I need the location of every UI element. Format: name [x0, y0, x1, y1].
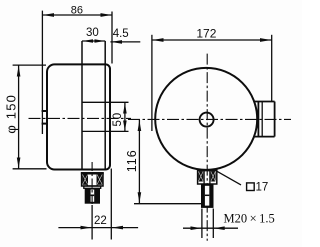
nut hatch left (front): [198, 171, 203, 181]
dimension line 50: [124, 103, 126, 132]
extension line M20 left: [201, 209, 203, 239]
label square 17: [247, 182, 269, 194]
extension line M20 right: [212, 209, 214, 239]
svg-text:17: 17: [256, 182, 269, 194]
extension line 172 left: [151, 35, 153, 131]
arrow 86 right: [101, 13, 112, 17]
arrow 116 top: [138, 120, 142, 131]
svg-text:86: 86: [71, 5, 83, 17]
nut facet line right: [96, 173, 98, 186]
arrow phi150 bottom: [17, 158, 21, 169]
dimension 4.5 leader line: [110, 41, 140, 43]
arrow 172 right: [260, 38, 271, 42]
case internal horizontal upper / ext line for 50: [82, 101, 129, 103]
dimension line 86: [42, 14, 112, 16]
svg-text:22: 22: [94, 215, 107, 227]
svg-text:4.5: 4.5: [113, 28, 129, 40]
arrow 172 left: [152, 38, 163, 42]
arrow 22 left (outside): [81, 226, 92, 230]
dimension line 22: [58, 227, 138, 229]
side tab on case right: [254, 102, 274, 137]
centerline horizontal left view: [29, 117, 132, 119]
svg-text:φ 150: φ 150: [4, 94, 19, 134]
dimension line 30: [82, 40, 105, 42]
extension line 86 left (through lug): [41, 11, 43, 134]
extension line 172 right: [271, 35, 273, 102]
nut facet line right (front): [209, 170, 211, 184]
extension line phi150 top: [13, 64, 46, 66]
nut hatch left: [82, 174, 88, 185]
arrow 116 bottom: [138, 192, 142, 203]
case internal edge line right: [104, 41, 106, 169]
arrow 30 right: [95, 39, 105, 43]
gauge case side view (rounded body): [47, 64, 110, 169]
back lug: [42, 110, 48, 112]
collar below nut: [84, 186, 101, 188]
case internal horizontal lower / ext line for 50: [82, 130, 129, 132]
arrow phi150 top: [17, 66, 21, 77]
center hole circle: [200, 113, 214, 127]
case internal edge line left: [81, 41, 83, 169]
extension line 86 right: [111, 12, 113, 64]
dimension line 116: [138, 120, 140, 203]
svg-text:50: 50: [112, 112, 124, 126]
dimension line M20: [183, 227, 238, 229]
svg-text:116: 116: [125, 149, 139, 172]
arrow 4.5: [111, 40, 122, 44]
hex nut front view outline: [198, 170, 217, 184]
leader line to square 17: [217, 171, 241, 185]
dimension line 172: [152, 39, 272, 41]
nut facet line left (front): [203, 170, 205, 184]
centerline vertical front view: [206, 54, 208, 241]
arrow M20 right (outside): [214, 226, 225, 230]
centerline horizontal front view: [128, 118, 291, 120]
arrow 86 left: [43, 13, 54, 17]
threaded stem side view: [85, 188, 100, 203]
nut hatch right (front): [211, 171, 216, 181]
arrow 50 bottom: [123, 121, 127, 131]
extension line phi150 bottom: [13, 168, 47, 170]
extension line from case front bottom corner: [110, 169, 112, 240]
arrow 30 left: [83, 39, 94, 43]
svg-text:M20 × 1.5: M20 × 1.5: [224, 212, 275, 226]
hex nut side view outline: [82, 173, 103, 186]
arrow 50 top: [123, 103, 127, 114]
dial case circle: [155, 68, 257, 170]
dimension line phi150: [18, 65, 20, 169]
svg-text:30: 30: [86, 27, 99, 39]
nut hatch right: [97, 174, 103, 185]
arrow 22 right (outside): [112, 226, 123, 230]
threaded stem front view: [201, 184, 214, 208]
nut facet line left: [86, 173, 88, 186]
arrow M20 left (outside): [191, 226, 202, 230]
extension line 116 bottom (stem bottom level): [134, 203, 212, 205]
svg-text:172: 172: [196, 26, 216, 40]
centerline vertical stem side view: [91, 162, 93, 205]
